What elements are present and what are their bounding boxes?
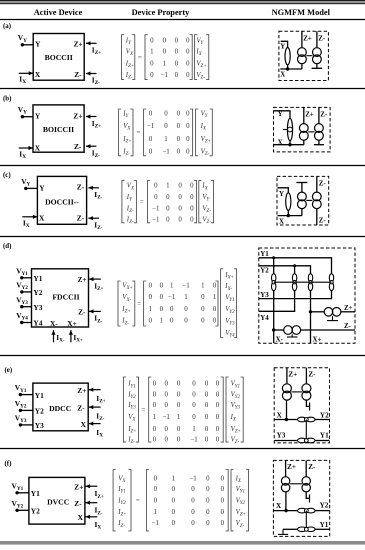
node X junction dot (e) [285, 418, 288, 421]
svg-text:VX: VX [127, 183, 135, 192]
wire X rail left (f) [273, 510, 297, 512]
svg-text:0: 0 [205, 437, 209, 444]
label V_Y4 (d) [16, 311, 28, 322]
svg-text:Z-: Z- [319, 217, 327, 224]
svg-text:0: 0 [172, 520, 176, 527]
label Z+ (e model) [288, 370, 297, 378]
svg-text:0: 0 [164, 426, 168, 433]
svg-text:X: X [39, 214, 45, 223]
svg-text:0: 0 [163, 37, 167, 44]
svg-text:0: 0 [177, 437, 181, 444]
svg-text:0: 0 [190, 183, 194, 190]
pin Y2 (f) [31, 507, 40, 516]
svg-text:VY2: VY2 [236, 498, 246, 507]
svg-text:0: 0 [166, 194, 170, 201]
svg-text:IZ-: IZ- [96, 412, 104, 423]
current mirror CM-Z- (d) [284, 326, 301, 335]
label Y (c model) [279, 191, 284, 198]
label Y1 (f model) [320, 521, 329, 529]
pin Z+ (b) [73, 111, 82, 120]
svg-text:IZ-: IZ- [117, 520, 125, 529]
svg-text:0: 0 [160, 306, 164, 313]
label Z- (f model) [308, 463, 316, 471]
svg-text:Y1: Y1 [35, 391, 44, 400]
block BOICCII U2 [33, 105, 84, 152]
current mirror CM2 (f) [302, 477, 310, 492]
wire CM1 to node X (f) [285, 492, 287, 511]
current mirror CM2 (e) [302, 384, 311, 400]
wire to Y2 (f) [315, 510, 330, 512]
svg-text:VZ-: VZ- [196, 72, 205, 81]
current arrow I_Z+ (a) [86, 41, 97, 45]
svg-text:IX: IX [235, 475, 242, 484]
label I_X- (d) [56, 333, 65, 344]
svg-text:VX: VX [126, 48, 134, 57]
svg-text:0: 0 [177, 426, 181, 433]
row separator below (b) [0, 165, 365, 167]
svg-text:−1: −1 [147, 123, 155, 130]
svg-text:0: 0 [221, 509, 225, 516]
svg-text:0: 0 [177, 136, 181, 143]
nullator-mirror pair NM3 (d) [308, 274, 312, 291]
label I_Z- (a) [92, 76, 100, 87]
svg-text:X-: X- [50, 319, 58, 328]
svg-text:0: 0 [149, 110, 153, 117]
svg-text:VZ+: VZ+ [196, 60, 206, 69]
svg-text:X: X [277, 411, 283, 419]
pin X (b) [35, 144, 41, 153]
current mirror CM1 (c) [298, 192, 307, 209]
svg-text:0: 0 [175, 48, 179, 55]
NGMFM model boundary (b) [274, 107, 331, 151]
svg-text:0: 0 [206, 498, 210, 505]
row label (c) [3, 172, 11, 179]
svg-text:0: 0 [154, 475, 158, 482]
wire V_Y3 to Y3 (d) [22, 306, 32, 308]
label V_Y1 (f) [12, 481, 24, 492]
net Y4 rail (d) [259, 291, 295, 312]
svg-text:0: 0 [177, 402, 181, 409]
svg-text:1: 1 [150, 48, 154, 55]
svg-text:IX: IX [19, 149, 26, 160]
svg-text:=: = [137, 129, 141, 137]
svg-text:0: 0 [175, 37, 179, 44]
label Z+ (b model) [305, 112, 314, 119]
svg-text:Y2: Y2 [320, 501, 329, 509]
wire X rail (a) [280, 68, 302, 70]
label X (f model) [276, 502, 282, 510]
svg-text:0: 0 [216, 392, 220, 399]
label Y3 (d model) [260, 292, 269, 299]
svg-text:−1: −1 [162, 149, 170, 156]
wire V_Y to Y (b) [22, 116, 33, 118]
svg-text:0: 0 [186, 60, 190, 67]
label Y (a model) [280, 44, 285, 51]
ground at CM-Z+ (d) [327, 316, 338, 321]
pin Z- (d) [78, 307, 86, 316]
current mirror CM1 (b) [299, 124, 308, 141]
label I_Z- (d) [94, 314, 102, 325]
svg-text:IX-: IX- [224, 283, 232, 292]
svg-text:IZ+: IZ+ [92, 119, 101, 130]
svg-text:0: 0 [149, 294, 153, 301]
svg-text:IZ+: IZ+ [127, 426, 136, 435]
row label (b) [3, 96, 11, 103]
svg-text:VY1: VY1 [236, 486, 245, 495]
pin Y3 (d) [33, 303, 42, 312]
pin Z+ (a) [74, 39, 83, 48]
label I_Z- top (c) [94, 190, 102, 201]
svg-text:0: 0 [178, 206, 182, 213]
wire Z+ feed (d) [311, 311, 325, 313]
mirror link wire (f) [290, 483, 302, 485]
pin Y4 (d) [33, 319, 42, 328]
svg-text:0: 0 [164, 110, 168, 117]
label V_Y (a) [18, 33, 27, 44]
svg-text:IZ-: IZ- [125, 72, 133, 81]
current arrow I_Z- (b) [86, 144, 97, 148]
terminal stub above CM1 (c) [296, 183, 307, 193]
svg-text:Y: Y [280, 44, 285, 51]
label V_Y3 (e) [15, 414, 27, 425]
svg-text:0: 0 [190, 194, 194, 201]
current arrow I_Z+ (e) [89, 388, 101, 392]
wire X+ column (d) [310, 291, 312, 344]
pin X (f) [78, 513, 84, 522]
wire voltage mirror to node X (b) [289, 141, 291, 145]
header rule [0, 19, 365, 21]
current arrow I_X into X (b) [19, 146, 33, 150]
wire Y3 rail (e) [274, 440, 298, 442]
label I_Z- bottom (c) [94, 221, 102, 232]
svg-text:1: 1 [172, 475, 176, 482]
pin Z+ (f) [74, 482, 83, 491]
current mirror CM-Z+ (d) [324, 308, 341, 317]
svg-text:0: 0 [205, 426, 209, 433]
svg-text:IZ+: IZ+ [125, 60, 134, 69]
column header Active Device [34, 8, 83, 17]
svg-text:0: 0 [216, 402, 220, 409]
terminal stub of CM2 (e) [306, 400, 309, 410]
row label (e) [5, 367, 13, 374]
svg-text:IZ-: IZ- [95, 506, 103, 517]
svg-text:IX: IX [230, 414, 237, 423]
svg-text:Y1: Y1 [320, 431, 329, 439]
label I_X (f) [95, 520, 102, 531]
svg-text:−1: −1 [152, 206, 160, 213]
wire V_Y to Y (c) [26, 187, 38, 189]
label Z+ (d model) [344, 305, 353, 312]
svg-text:Z-: Z- [77, 183, 85, 192]
wire X- column (d) [273, 291, 275, 344]
svg-text:0: 0 [170, 306, 174, 313]
mirror link wire (a) [306, 55, 312, 57]
current arrow I_X into X (a) [19, 71, 34, 75]
wire V_Y1 to Y1 (f) [17, 492, 29, 494]
junction dot Y1-element1 (d) [272, 256, 275, 259]
svg-text:0: 0 [216, 437, 220, 444]
node V_Y1 terminal dot (d) [20, 276, 23, 279]
label Y2 (e model) [320, 411, 329, 419]
svg-text:1: 1 [213, 294, 217, 301]
wire X rail to mirror CM1 (c) [301, 209, 303, 216]
svg-text:−1: −1 [182, 283, 190, 290]
NGMFM model boundary (a) [279, 31, 329, 80]
label I_X (e) [96, 428, 103, 439]
nullator-mirror pair NM1 (d) [272, 274, 276, 291]
svg-text:Z+: Z+ [303, 36, 312, 43]
svg-text:1: 1 [160, 318, 164, 325]
current mirror CM2 (b) [315, 124, 324, 141]
pin Z+ (e) [77, 386, 86, 395]
svg-text:0: 0 [192, 381, 196, 388]
wire to Y1 (f) [315, 528, 330, 530]
svg-text:0: 0 [192, 414, 196, 421]
pin Z- (b) [74, 142, 82, 151]
label Y2 (f model) [320, 501, 329, 509]
node V_Y1 terminal dot (f) [15, 491, 18, 494]
svg-text:−1: −1 [190, 437, 198, 444]
mirror link rail (d) [274, 281, 332, 283]
svg-text:X: X [78, 513, 84, 522]
svg-text:0: 0 [175, 72, 179, 79]
row label (a) [3, 23, 11, 30]
svg-text:0: 0 [186, 48, 190, 55]
svg-text:0: 0 [190, 206, 194, 213]
svg-text:0: 0 [206, 486, 210, 493]
NGMFM model boundary (f) [273, 460, 329, 536]
ground at CM-Z- (d) [287, 334, 298, 337]
label Z+ (f model) [287, 463, 296, 471]
svg-text:0: 0 [149, 318, 153, 325]
svg-text:DDCC: DDCC [49, 404, 71, 413]
device property matrix equation (e) [123, 377, 243, 445]
pin Z- top (c) [77, 183, 85, 192]
svg-text:Z-: Z- [77, 403, 85, 412]
label Y4 (d model) [260, 315, 269, 322]
svg-text:Y1: Y1 [31, 489, 40, 498]
current arrow I_Z+ (b) [86, 114, 97, 118]
node V_Y3 terminal dot (e) [19, 423, 22, 426]
wire Z- top (c) [316, 176, 318, 192]
svg-text:VY2: VY2 [231, 392, 241, 401]
svg-text:Z+: Z+ [77, 386, 86, 395]
svg-text:0: 0 [221, 475, 225, 482]
node X junction dot (f) [284, 509, 287, 512]
svg-text:0: 0 [153, 381, 157, 388]
svg-text:0: 0 [201, 306, 205, 313]
svg-text:0: 0 [154, 498, 158, 505]
label Z+ (a model) [303, 36, 312, 43]
svg-text:VZ+: VZ+ [231, 426, 241, 435]
pin Y (c) [39, 183, 45, 192]
svg-text:Y3: Y3 [35, 421, 44, 430]
label I_Z- (e) [96, 412, 104, 423]
net Y3 rail (d) [259, 291, 332, 299]
label I_X (a) [19, 75, 26, 86]
svg-text:VZ-: VZ- [202, 206, 211, 215]
svg-text:IZ-: IZ- [92, 148, 100, 159]
current mirror CM1 (e) [282, 384, 291, 400]
current arrow I_X into X (c) [22, 215, 37, 219]
pin X (c) [39, 214, 45, 223]
svg-text:1: 1 [177, 414, 181, 421]
wire V_Y4 to Y4 (d) [22, 322, 32, 324]
label V_Y1 (d) [16, 266, 28, 277]
svg-text:1: 1 [192, 426, 196, 433]
pin X+ (d) [67, 319, 77, 328]
node X junction dot (c) [287, 214, 290, 217]
svg-text:0: 0 [172, 509, 176, 516]
svg-text:X: X [81, 420, 87, 429]
node X junction dot (a) [286, 67, 289, 70]
label V_Y2 (e) [15, 399, 27, 410]
svg-text:VY: VY [21, 177, 30, 188]
svg-text:0: 0 [184, 318, 188, 325]
svg-text:0: 0 [184, 306, 188, 313]
svg-text:=: = [141, 406, 145, 414]
svg-text:IZ+: IZ+ [121, 306, 130, 315]
svg-text:0: 0 [153, 402, 157, 409]
svg-text:0: 0 [191, 520, 195, 527]
svg-text:VY2: VY2 [225, 306, 235, 315]
device property matrix equation (a) [122, 35, 209, 81]
node V_Y1 terminal dot (e) [19, 393, 22, 396]
svg-text:1: 1 [201, 283, 205, 290]
label Y3 (e model) [277, 431, 286, 439]
svg-text:Y4: Y4 [260, 315, 269, 322]
label V_Y1 (e) [15, 383, 27, 394]
junction dot Y2-element2 (d) [293, 264, 296, 267]
nullator pair N1-N2 (e) [298, 417, 316, 422]
wire Z+ out (d) [341, 311, 355, 313]
svg-text:0: 0 [213, 306, 217, 313]
svg-text:Device Property: Device Property [132, 8, 191, 17]
label Z- top (c model) [319, 180, 327, 187]
nullator pair N1-N2 (f) [298, 508, 316, 513]
svg-text:Y: Y [35, 40, 41, 49]
svg-text:0: 0 [213, 283, 217, 290]
NGMFM model boundary (d) [259, 248, 355, 343]
svg-text:0: 0 [153, 392, 157, 399]
label V_Y (c) [21, 177, 30, 188]
current arrow I_Z- (f) [86, 501, 98, 505]
nullator O1 (a) [285, 48, 290, 65]
svg-text:0: 0 [206, 520, 210, 527]
svg-text:VZ-: VZ- [201, 149, 210, 158]
current arrow I_Z- (d) [89, 309, 101, 313]
label I_Z+ (d) [94, 281, 103, 292]
column header Device Property [132, 8, 191, 17]
label Y (b model) [278, 111, 283, 118]
svg-text:IY2: IY2 [127, 392, 136, 401]
row label (f) [5, 461, 12, 468]
svg-text:0: 0 [213, 318, 217, 325]
svg-text:−1: −1 [152, 217, 160, 224]
label I_X (b) [19, 149, 26, 160]
svg-text:0: 0 [172, 486, 176, 493]
svg-text:VZ-: VZ- [231, 437, 240, 446]
net Y1 rail (d) [259, 258, 332, 274]
svg-text:IX: IX [95, 520, 102, 531]
terminal stub of CM2 (f) [306, 492, 309, 503]
node V_Y2 terminal dot (d) [20, 290, 23, 293]
svg-text:Y3: Y3 [33, 303, 42, 312]
svg-text:Y: Y [278, 111, 283, 118]
label I_X (c) [23, 218, 30, 229]
wire Z- (b) [318, 107, 320, 123]
current arrow I_X+ (d) [69, 330, 73, 342]
svg-text:VY3: VY3 [16, 295, 28, 306]
nullator pair N3-N4 (e) [298, 438, 316, 443]
label Z- (b model) [320, 112, 328, 119]
svg-text:0: 0 [186, 72, 190, 79]
svg-text:Z-: Z- [74, 70, 82, 79]
svg-text:Z-: Z- [318, 36, 326, 43]
node V_Y4 terminal dot (d) [20, 321, 23, 324]
wire Y to nullator (c) [278, 188, 289, 193]
svg-text:X: X [35, 144, 41, 153]
svg-text:0: 0 [216, 426, 220, 433]
wire Z+ (e) [286, 368, 288, 384]
svg-text:0: 0 [205, 402, 209, 409]
svg-text:VZ-: VZ- [202, 217, 211, 226]
label I_Z+ (e) [96, 394, 105, 405]
net Y2 rail (d) [259, 266, 311, 274]
ground symbol (f) [278, 529, 288, 534]
svg-text:0: 0 [150, 60, 154, 67]
svg-text:VY: VY [18, 33, 27, 44]
svg-text:0: 0 [186, 136, 190, 143]
node V_Y terminal dot (c) [24, 187, 27, 190]
svg-text:0: 0 [154, 486, 158, 493]
voltage mirror VM1 (b) [283, 118, 293, 140]
svg-text:0: 0 [191, 498, 195, 505]
svg-text:BOCCII: BOCCII [45, 53, 73, 62]
svg-text:VZ+: VZ+ [201, 136, 211, 145]
svg-text:−1: −1 [152, 520, 160, 527]
svg-text:(c): (c) [3, 172, 11, 179]
svg-text:Y: Y [279, 191, 284, 198]
svg-text:IZ+: IZ+ [117, 509, 126, 518]
label V_Y3 (d) [16, 295, 28, 306]
block DDCC U5 [33, 383, 88, 431]
svg-text:=: = [137, 300, 141, 308]
row separator below (e) [0, 448, 365, 450]
svg-text:0: 0 [206, 475, 210, 482]
current arrow I_X (e) [89, 422, 101, 426]
svg-text:VX: VX [128, 414, 136, 423]
svg-text:IZ-: IZ- [126, 217, 134, 226]
svg-text:Y: Y [39, 183, 45, 192]
svg-text:IY: IY [126, 194, 133, 203]
svg-text:Y1: Y1 [33, 274, 42, 283]
mirror link wire (c) [306, 199, 312, 201]
current arrow I_Z- (e) [89, 405, 101, 409]
svg-text:VY1: VY1 [225, 295, 234, 304]
pin Y3 (e) [35, 421, 44, 430]
svg-text:Z-: Z- [74, 499, 82, 508]
svg-text:VY3: VY3 [231, 402, 241, 411]
wire Z+ (f) [285, 460, 287, 476]
svg-text:=: = [138, 53, 142, 61]
node V_Y terminal dot (a) [21, 43, 24, 46]
svg-text:0: 0 [221, 498, 225, 505]
label X+ (d model) [313, 337, 322, 344]
node Z+ junction dot (d) [309, 310, 312, 313]
svg-text:0: 0 [149, 283, 153, 290]
svg-text:X: X [276, 502, 282, 510]
